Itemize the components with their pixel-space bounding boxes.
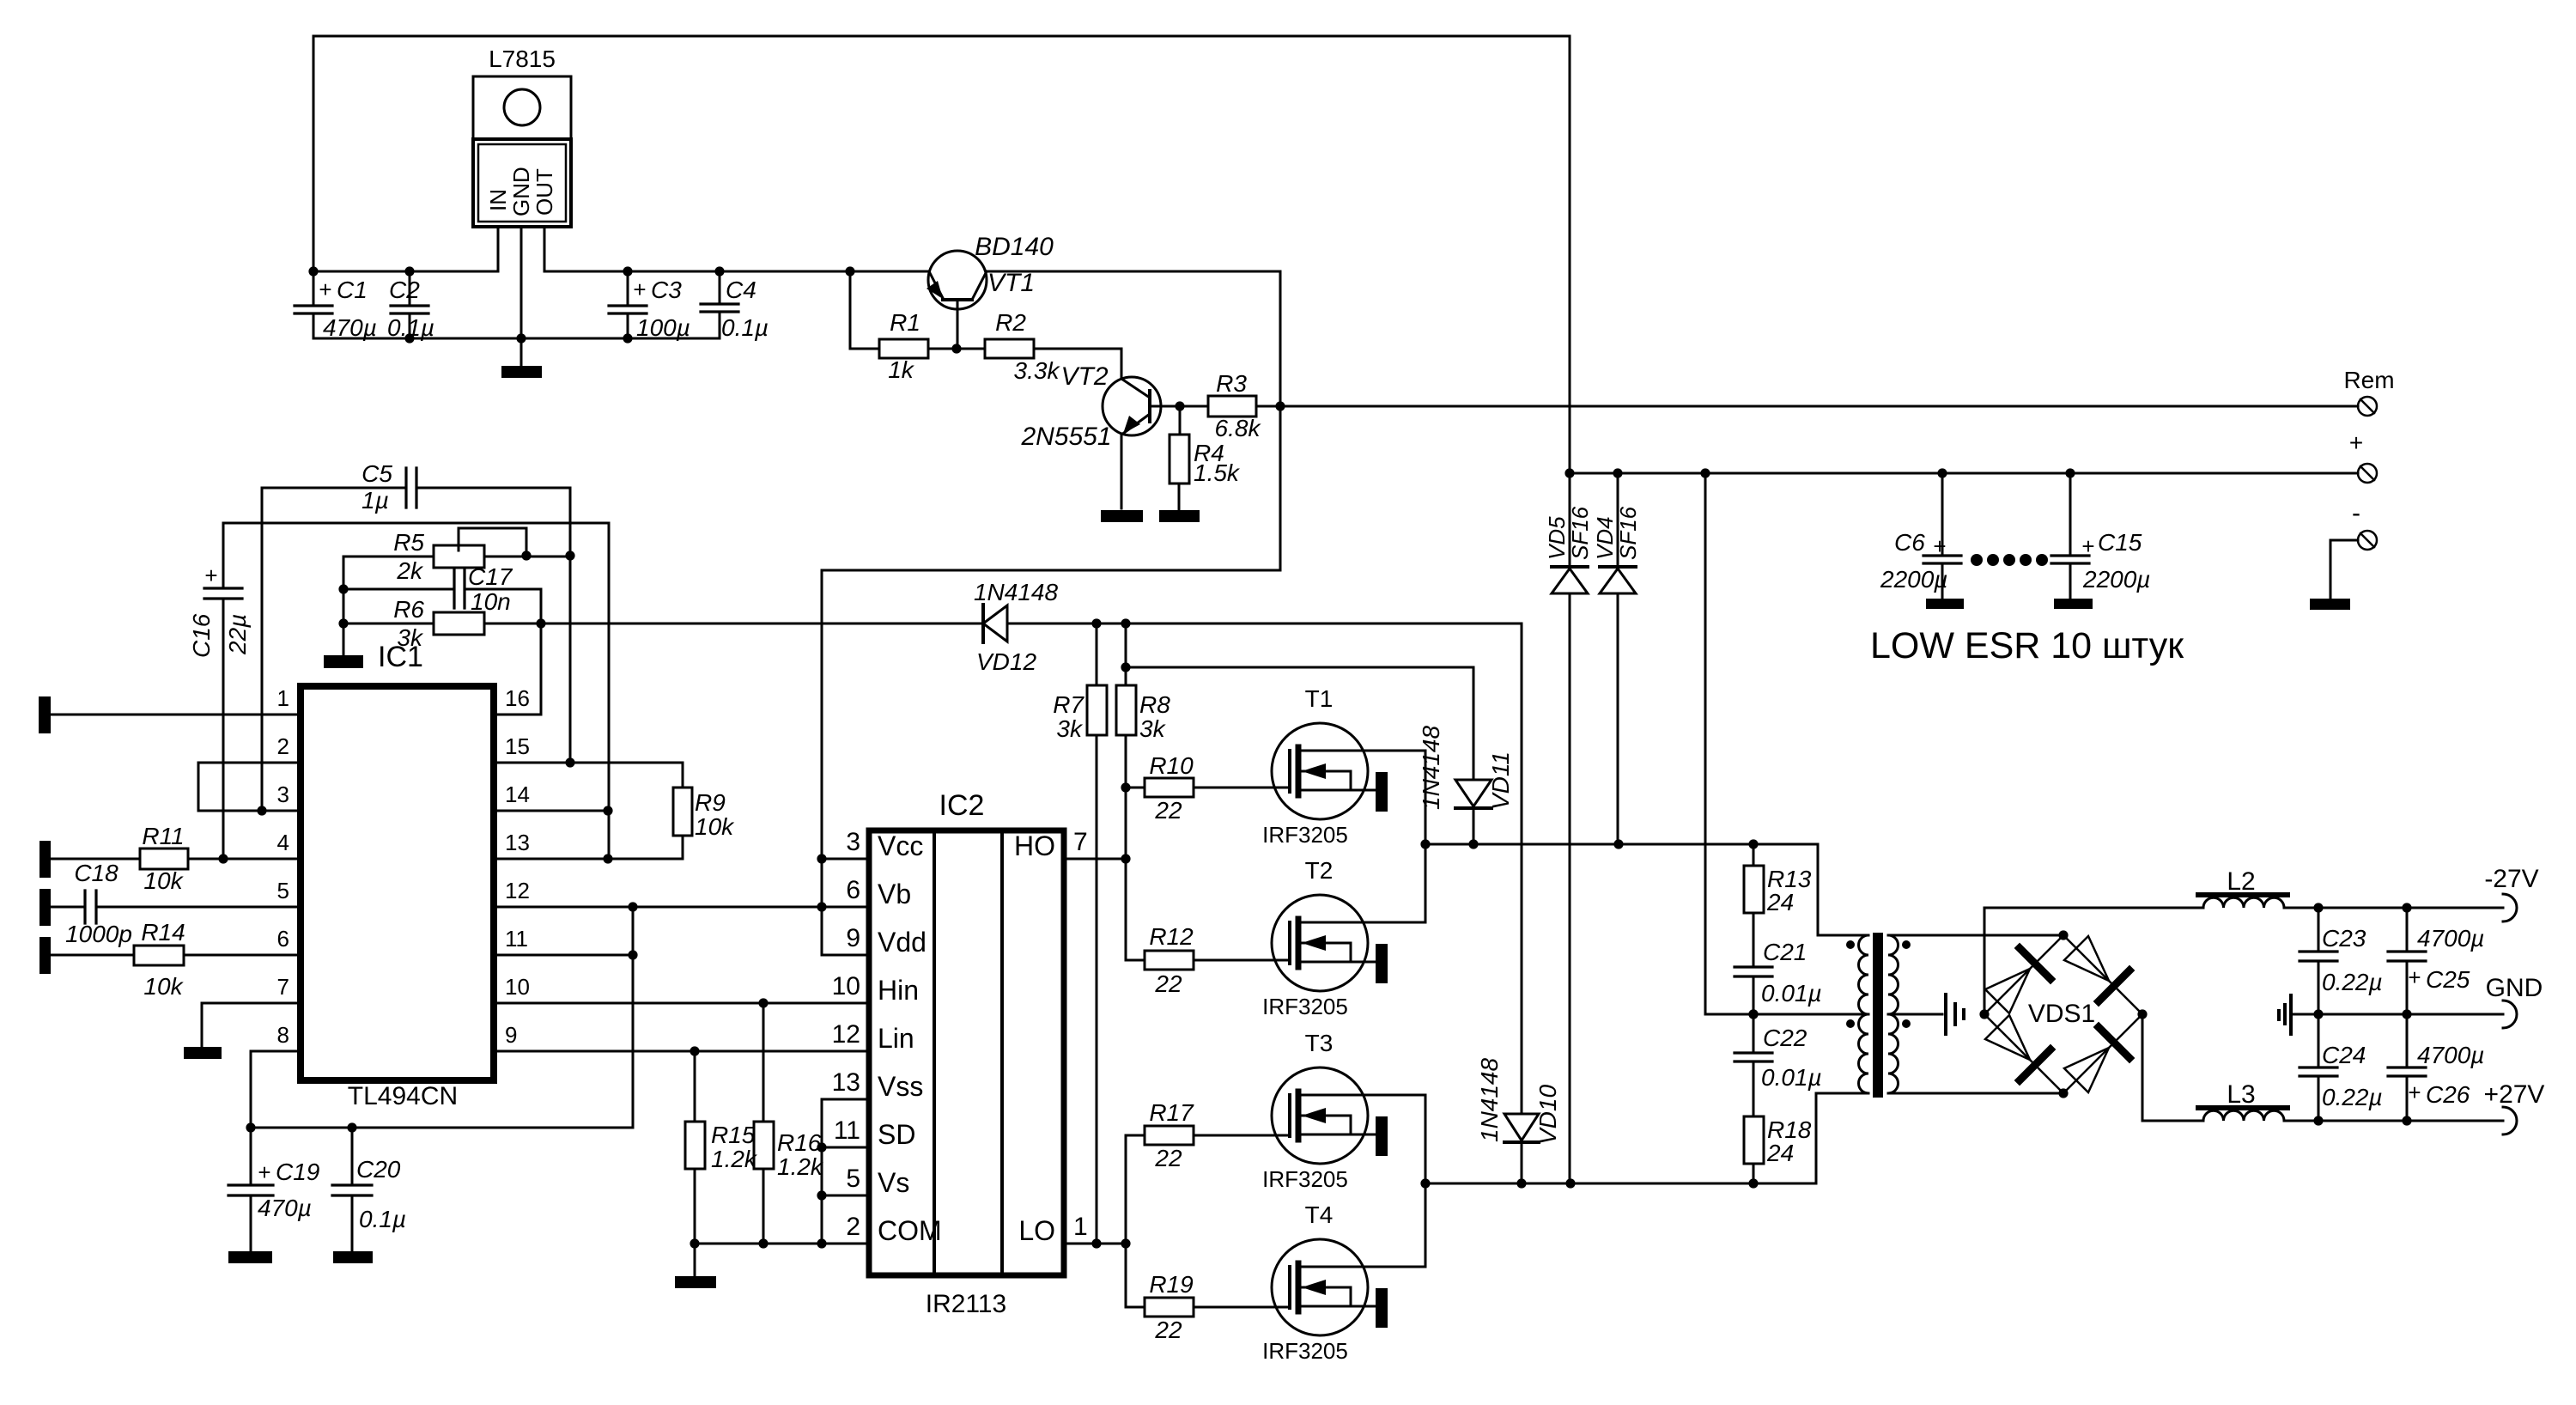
phase dot primary upper — [1846, 940, 1855, 949]
terminal +27V — [2503, 1107, 2517, 1134]
svg-text:R16: R16 — [777, 1129, 822, 1156]
resistor R11 10k — [140, 848, 188, 869]
wire GND rail — [2291, 1013, 2503, 1016]
svg-text:GND: GND — [2486, 974, 2543, 1002]
svg-text:Lin: Lin — [878, 1023, 914, 1054]
node R1 input drop from +12V rail — [850, 271, 879, 349]
wire IC1 pin10 to IC2 Hin — [494, 1002, 869, 1005]
svg-text:R17: R17 — [1149, 1099, 1194, 1126]
svg-text:VD10: VD10 — [1534, 1085, 1561, 1145]
wire R11 input — [51, 858, 140, 861]
svg-text:Vs: Vs — [878, 1167, 909, 1198]
svg-text:2: 2 — [846, 1213, 860, 1241]
svg-text:+: + — [258, 1159, 270, 1185]
svg-text:T1: T1 — [1305, 685, 1334, 712]
svg-text:2: 2 — [277, 733, 289, 759]
wire IC1 pin12 to IC2 Vb — [494, 906, 869, 909]
svg-text:R14: R14 — [141, 919, 185, 946]
phase dot primary lower — [1846, 1019, 1855, 1028]
transistor VT2 2N5551 (NPN) — [1103, 377, 1180, 508]
svg-text:C5: C5 — [361, 460, 392, 487]
svg-text:Vcc: Vcc — [878, 830, 923, 861]
svg-text:IRF3205: IRF3205 — [1262, 994, 1348, 1019]
svg-text:2200µ: 2200µ — [1880, 566, 1947, 593]
resistor R18 24 — [1744, 1116, 1764, 1183]
capacitor C25 4700u electrolytic — [2388, 908, 2426, 1014]
capacitor C2 0.1u — [391, 271, 428, 338]
transformer TR1 primary winding — [1859, 935, 1869, 1093]
transformer core — [1873, 933, 1883, 1098]
diode VD4 SF16 — [1600, 567, 1636, 844]
resistor R6 3k — [343, 612, 484, 635]
svg-text:L3: L3 — [2227, 1080, 2255, 1109]
IC IC1 TL494CN box — [301, 686, 494, 1080]
wire secondary top lead to bridge — [1888, 934, 2063, 937]
wire supply loop bottom to IC2 Vcc branch — [822, 569, 1280, 572]
wire VT1 collector vertical to IC2 supply loop — [1279, 271, 1282, 570]
svg-text:-27V: -27V — [2484, 865, 2538, 893]
svg-text:R3: R3 — [1216, 370, 1247, 397]
wire secondary bottom lead to bridge — [1888, 1092, 2063, 1095]
potentiometer R5 2k — [343, 528, 570, 568]
svg-text:C6: C6 — [1894, 529, 1925, 556]
wire IC1 pin13 line to R9 bottom — [494, 836, 683, 859]
svg-text:R11: R11 — [142, 823, 184, 849]
node bridge left vertex — [1979, 1009, 1989, 1019]
wire Rem net from R3 to Rem terminal — [1256, 405, 2358, 408]
wire IC1 pin14 — [494, 810, 608, 812]
svg-text:1.5k: 1.5k — [1194, 459, 1241, 486]
wire T1/T2 drain tie vertical — [1298, 751, 1425, 922]
svg-text:0.01µ: 0.01µ — [1761, 980, 1822, 1007]
svg-text:1µ: 1µ — [361, 487, 389, 514]
svg-text:IN: IN — [485, 189, 511, 211]
svg-text:16: 16 — [505, 685, 530, 711]
svg-text:0.1µ: 0.1µ — [359, 1206, 406, 1232]
svg-text:C17: C17 — [468, 563, 513, 590]
wire DTC net from C16 top to pins 13/14 — [223, 523, 609, 859]
svg-text:+: + — [204, 563, 217, 588]
wire R15 ground stub — [694, 1244, 696, 1276]
resistor R16 1.2k — [754, 1003, 774, 1244]
svg-text:T2: T2 — [1305, 857, 1334, 884]
svg-text:15: 15 — [505, 733, 530, 759]
svg-text:VD5: VD5 — [1544, 516, 1570, 560]
svg-text:C1: C1 — [337, 277, 368, 303]
svg-text:12: 12 — [832, 1020, 860, 1049]
ground at C15 — [2054, 599, 2093, 609]
svg-text:22: 22 — [1154, 797, 1182, 824]
svg-text:1N4148: 1N4148 — [1418, 725, 1444, 810]
svg-text:C4: C4 — [726, 277, 756, 303]
svg-text:C23: C23 — [2322, 925, 2366, 952]
ground at C20 — [333, 1251, 373, 1263]
svg-text:C19: C19 — [276, 1159, 319, 1185]
svg-text:24: 24 — [1766, 1140, 1794, 1166]
capacitor C15 2200u electrolytic — [2051, 473, 2089, 599]
resistor R9 10k — [673, 788, 692, 836]
wire +12V rail to + terminal — [1570, 472, 2358, 475]
capacitor C20 0.1u — [332, 1128, 372, 1251]
svg-text:R8: R8 — [1139, 691, 1170, 718]
svg-text:IC2: IC2 — [939, 789, 985, 822]
svg-text:11: 11 — [505, 926, 528, 952]
svg-text:2200µ: 2200µ — [2082, 566, 2150, 593]
capacitor C5 1u feedback — [262, 468, 570, 508]
wire secondary center tap to earth — [1888, 1013, 1942, 1016]
svg-text:LOW ESR 10 штук: LOW ESR 10 штук — [1870, 625, 2184, 666]
wire +27V rail — [2284, 1120, 2503, 1122]
svg-text:12: 12 — [505, 878, 530, 903]
svg-text:VDS1: VDS1 — [2028, 1000, 2095, 1028]
terminal bar at T4 source — [1376, 1288, 1388, 1328]
terminal bar at T2 source — [1376, 944, 1388, 983]
wire IC1 pin16 stub — [494, 714, 541, 716]
svg-text:Hin: Hin — [878, 975, 919, 1006]
wire IC1 pin15 to R9 top — [494, 763, 683, 788]
wire IC1 pin7 to ground — [202, 1003, 301, 1047]
wire R5/R6 left common to ground — [343, 557, 345, 655]
svg-text:14: 14 — [505, 782, 530, 807]
svg-text:6: 6 — [846, 876, 860, 904]
wire bridge plus to L3 — [2142, 1014, 2203, 1121]
svg-text:R10: R10 — [1149, 752, 1194, 779]
wire R14 input — [51, 954, 134, 957]
svg-text:0.1µ: 0.1µ — [721, 314, 769, 341]
svg-text:7: 7 — [1073, 828, 1088, 856]
svg-text:1.2k: 1.2k — [777, 1153, 824, 1180]
svg-text:4: 4 — [277, 830, 289, 855]
svg-text:24: 24 — [1766, 889, 1794, 915]
svg-text:470µ: 470µ — [258, 1195, 312, 1221]
svg-text:VD12: VD12 — [976, 648, 1036, 675]
wire bottom ground bus under C1..C4 — [313, 338, 720, 340]
wire top +12V bus from C1 to VD5/VD4 branch — [313, 35, 1570, 38]
resistor R13 24 — [1744, 844, 1764, 967]
resistor R10 22 — [1126, 778, 1290, 797]
earth ground at secondary center tap — [1946, 994, 1964, 1034]
inductor L3 — [2198, 1108, 2287, 1121]
svg-text:6: 6 — [277, 926, 289, 952]
resistor R3 6.8k — [1208, 396, 1256, 417]
capacitor C16 22u electrolytic — [204, 523, 242, 859]
svg-text:13: 13 — [505, 830, 530, 855]
wire bridge minus to L2 — [1984, 908, 2203, 1014]
svg-text:2k: 2k — [396, 557, 424, 584]
svg-text:5: 5 — [277, 878, 289, 903]
wire left vertical from top bus down to C1 node — [313, 36, 315, 271]
bridge rectifier VDS1 diamond — [1984, 935, 2142, 1093]
terminal bar at T3 source — [1376, 1116, 1388, 1156]
svg-text:C18: C18 — [74, 860, 118, 886]
diode VD10 1N4148 — [1504, 623, 1539, 1183]
svg-text:R15: R15 — [711, 1122, 756, 1148]
svg-text:2N5551: 2N5551 — [1020, 423, 1111, 451]
transformer TR1 secondary winding — [1888, 935, 1899, 1093]
ground at L7815 GND pin — [501, 366, 542, 378]
svg-text:C24: C24 — [2322, 1042, 2366, 1068]
node VT2 collector — [1175, 401, 1184, 411]
svg-text:6.8k: 6.8k — [1215, 415, 1262, 441]
svg-text:1.2k: 1.2k — [711, 1146, 758, 1172]
terminal - — [2330, 531, 2377, 599]
node bridge bottom vertex — [2058, 1088, 2068, 1098]
svg-text:C20: C20 — [356, 1156, 401, 1183]
svg-text:1: 1 — [277, 685, 289, 711]
svg-text:BD140: BD140 — [975, 233, 1054, 261]
wire output rail segment OUT pin..VT1 emitter — [544, 271, 929, 273]
svg-text:VD11: VD11 — [1487, 751, 1514, 810]
resistor R8 3k — [1116, 623, 1136, 960]
svg-text:3: 3 — [846, 828, 860, 856]
capacitor C4 0.1u — [701, 271, 738, 338]
svg-text:R19: R19 — [1149, 1271, 1193, 1298]
terminal bar at R11 input — [39, 841, 51, 878]
svg-text:10k: 10k — [143, 867, 184, 894]
svg-text:1N4148: 1N4148 — [1476, 1057, 1503, 1142]
wire IC1 pin8 down to C19 node — [251, 1051, 301, 1128]
svg-text:10k: 10k — [143, 973, 184, 1000]
capacitor C21 0.01u — [1735, 967, 1772, 1053]
wire R2 to VT2 base — [1035, 349, 1121, 378]
capacitor C26 4700u electrolytic — [2388, 1014, 2426, 1121]
svg-text:IRF3205: IRF3205 — [1262, 1166, 1348, 1192]
node bridge top vertex — [2058, 930, 2068, 940]
diode VD5 SF16 — [1552, 473, 1588, 1183]
svg-text:10k: 10k — [695, 813, 735, 840]
svg-text:+: + — [2081, 533, 2094, 559]
capacitor C23 0.22u — [2300, 908, 2337, 1014]
svg-text:C21: C21 — [1763, 939, 1807, 965]
svg-text:7: 7 — [277, 974, 289, 1000]
svg-text:SF16: SF16 — [1567, 506, 1593, 560]
svg-text:R12: R12 — [1149, 923, 1194, 950]
svg-text:C3: C3 — [651, 277, 682, 303]
svg-text:IRF3205: IRF3205 — [1262, 1338, 1348, 1364]
svg-text:IC1: IC1 — [378, 641, 423, 673]
resistor R14 10k — [134, 946, 184, 965]
diode VD12 1N4148 — [983, 605, 1007, 642]
svg-text:R5: R5 — [393, 529, 424, 556]
svg-text:22µ: 22µ — [224, 614, 251, 655]
resistor R12 22 — [1126, 859, 1290, 970]
terminal bar at R14 input — [39, 937, 51, 974]
ground at R15/R16 rail — [675, 1276, 716, 1288]
node bridge right vertex — [2137, 1009, 2147, 1019]
IC IC2 IR2113 box — [869, 830, 1064, 1275]
svg-text:VD4: VD4 — [1592, 516, 1618, 560]
wire C5 left vertical to pin3 — [261, 488, 264, 811]
svg-text:C22: C22 — [1763, 1025, 1807, 1051]
capacitor C22 0.01u — [1735, 1053, 1772, 1116]
wire VT1 collector to supply corner — [987, 271, 1280, 273]
terminal Rem — [2358, 397, 2377, 416]
svg-text:IRF3205: IRF3205 — [1262, 822, 1348, 848]
svg-text:C26: C26 — [2426, 1081, 2470, 1108]
wire C19/C20 node to pins 11/12 vertical — [251, 907, 633, 1128]
wire C5 right vertical to pin15 — [569, 488, 572, 763]
phase dot secondary lower — [1902, 1019, 1911, 1028]
svg-text:0.1µ: 0.1µ — [387, 314, 434, 341]
svg-text:1k: 1k — [888, 356, 915, 383]
svg-text:9: 9 — [505, 1022, 517, 1048]
ground at - terminal — [2310, 599, 2350, 610]
terminal -27V — [2503, 894, 2517, 921]
svg-text:+: + — [319, 277, 331, 302]
svg-text:470µ: 470µ — [323, 314, 377, 341]
capacitor C17 10n — [343, 570, 541, 608]
wire IC1 pin11 — [494, 954, 633, 957]
capacitor C3 100u electrolytic — [609, 271, 647, 338]
ground at VT2 emitter — [1101, 510, 1143, 522]
resistor R7 3k — [1087, 623, 1107, 1244]
ground at C6 — [1926, 599, 1964, 609]
wire VD5-VD4 cathode tie — [1570, 473, 1618, 567]
wire T3/T4 drain tie vertical — [1298, 1095, 1425, 1267]
wire R1 to VT1 base node — [928, 348, 985, 350]
svg-text:R7: R7 — [1053, 691, 1084, 718]
transistor VT1 BD140 (PNP) — [927, 251, 987, 349]
svg-text:+: + — [2349, 429, 2363, 456]
terminal bar at T1 source — [1376, 772, 1388, 812]
wire vertical into IC2 Vcc/Vb/Vdd — [822, 570, 869, 955]
wire -27V rail — [2284, 907, 2503, 909]
svg-text:GND: GND — [508, 167, 534, 216]
svg-text:3k: 3k — [1139, 715, 1167, 742]
wire COM/ground rail R15 R16 to IC2 COM — [695, 1243, 869, 1245]
wire R11 to pin4 — [188, 858, 301, 861]
svg-text:4700µ: 4700µ — [2417, 1042, 2484, 1068]
svg-text:SD: SD — [878, 1119, 915, 1150]
svg-text:IR2113: IR2113 — [926, 1290, 1007, 1318]
svg-text:L2: L2 — [2227, 867, 2255, 896]
terminal + — [2358, 464, 2377, 483]
resistor R4 1.5k — [1170, 406, 1189, 510]
svg-text:R6: R6 — [393, 596, 424, 623]
wire IC1 pin1 — [51, 714, 301, 716]
transistor T2 IRF3205 (N-MOSFET) — [1272, 895, 1425, 991]
svg-text:0.22µ: 0.22µ — [2322, 1084, 2383, 1110]
svg-text:C15: C15 — [2098, 529, 2142, 556]
wire lower drain rail to transformer primary bottom — [1425, 1093, 1868, 1183]
svg-text:LO: LO — [1018, 1215, 1055, 1246]
transistor T4 IRF3205 (N-MOSFET) — [1272, 1239, 1425, 1335]
svg-text:8: 8 — [277, 1022, 289, 1048]
inductor L2 — [2198, 895, 2287, 908]
svg-text:C2: C2 — [389, 277, 420, 303]
svg-text:+: + — [1933, 533, 1946, 559]
wire top bus down to VD5/VD4 and +12V node — [1569, 36, 1571, 473]
svg-text:1N4148: 1N4148 — [974, 579, 1059, 605]
svg-text:11: 11 — [834, 1116, 860, 1145]
capacitor C18 1000p — [51, 891, 301, 923]
wire input rail segment C1..IN pin — [313, 271, 498, 273]
svg-text:R2: R2 — [995, 309, 1026, 336]
ground at R5/R6 — [324, 655, 363, 668]
transistor T1 IRF3205 (N-MOSFET) — [1272, 723, 1425, 819]
svg-text:22: 22 — [1154, 1317, 1182, 1343]
svg-text:HO: HO — [1014, 830, 1055, 861]
svg-text:22: 22 — [1154, 1145, 1182, 1171]
svg-text:Vb: Vb — [878, 879, 911, 909]
dots ellipsis between C6 and C15 — [1971, 554, 1983, 566]
svg-text:4700µ: 4700µ — [2417, 925, 2484, 952]
svg-text:3: 3 — [277, 782, 289, 807]
wire R14 to pin6 — [184, 954, 301, 957]
ground at IC1 pin7 — [184, 1047, 222, 1059]
svg-text:VT1: VT1 — [987, 269, 1035, 297]
svg-text:9: 9 — [846, 924, 860, 952]
svg-text:OUT: OUT — [532, 168, 557, 216]
terminal bar at IC1 pin1 — [39, 696, 51, 733]
svg-text:R9: R9 — [695, 789, 726, 816]
resistor R15 1.2k — [685, 1051, 705, 1244]
svg-text:10: 10 — [832, 972, 860, 1001]
wire HO output — [1064, 858, 1126, 861]
svg-text:L7815: L7815 — [489, 46, 556, 72]
capacitor C1 470u electrolytic — [295, 271, 332, 338]
svg-text:100µ: 100µ — [636, 314, 690, 341]
svg-text:5: 5 — [846, 1165, 860, 1193]
svg-text:C25: C25 — [2426, 966, 2470, 993]
resistor R19 22 — [1126, 1244, 1290, 1317]
svg-text:0.22µ: 0.22µ — [2322, 969, 2383, 995]
capacitor C19 470u electrolytic — [228, 1128, 273, 1251]
resistor R1 1k — [879, 339, 928, 358]
svg-text:Vdd: Vdd — [878, 927, 927, 958]
wire VT2 collector to R3 — [1180, 405, 1208, 408]
wire center-tap feed vertical — [1705, 473, 1868, 1014]
svg-text:13: 13 — [832, 1068, 860, 1097]
svg-text:3k: 3k — [1056, 715, 1084, 742]
wire IC2 Vs stub — [822, 1195, 869, 1197]
svg-text:TL494CN: TL494CN — [348, 1082, 458, 1110]
svg-text:0.01µ: 0.01µ — [1761, 1064, 1822, 1091]
wire IC1 pin2-pin3 loop — [198, 763, 301, 811]
svg-text:COM: COM — [878, 1215, 942, 1246]
terminal GND — [2503, 1001, 2517, 1028]
resistor R2 3.3k — [985, 339, 1034, 358]
earth ground at GND rail — [2279, 995, 2291, 1034]
voltage regulator U L7815 (TO-220 package) — [473, 76, 571, 366]
svg-text:SF16: SF16 — [1615, 506, 1641, 560]
svg-text:22: 22 — [1154, 970, 1182, 997]
terminal bar at C18 input — [39, 889, 51, 926]
capacitor C24 0.22u — [2300, 1014, 2337, 1121]
diode VD11 1N4148 bootstrap — [1126, 667, 1492, 844]
svg-text:T4: T4 — [1305, 1201, 1334, 1228]
resistor R17 22 — [1126, 1126, 1290, 1244]
svg-text:+27V: +27V — [2484, 1080, 2545, 1109]
ground at C19 — [228, 1251, 272, 1263]
svg-text:3.3k: 3.3k — [1014, 357, 1061, 384]
junction dots on regulator rails — [308, 266, 318, 276]
svg-text:-: - — [2352, 499, 2360, 527]
svg-text:+: + — [2408, 1080, 2421, 1105]
capacitor C6 2200u electrolytic — [1923, 473, 1961, 599]
svg-text:10: 10 — [505, 974, 530, 1000]
svg-text:C16: C16 — [188, 613, 215, 658]
svg-text:Vss: Vss — [878, 1071, 923, 1102]
svg-text:+: + — [2408, 964, 2421, 990]
wire IC2 SD stub — [822, 1147, 869, 1149]
svg-text:1000p: 1000p — [65, 921, 132, 947]
wire R6 output / VD12 anode line — [484, 623, 1522, 625]
svg-text:R1: R1 — [890, 309, 920, 336]
svg-text:1: 1 — [1073, 1213, 1088, 1241]
svg-text:+: + — [633, 277, 646, 302]
phase dot secondary upper — [1902, 940, 1911, 949]
